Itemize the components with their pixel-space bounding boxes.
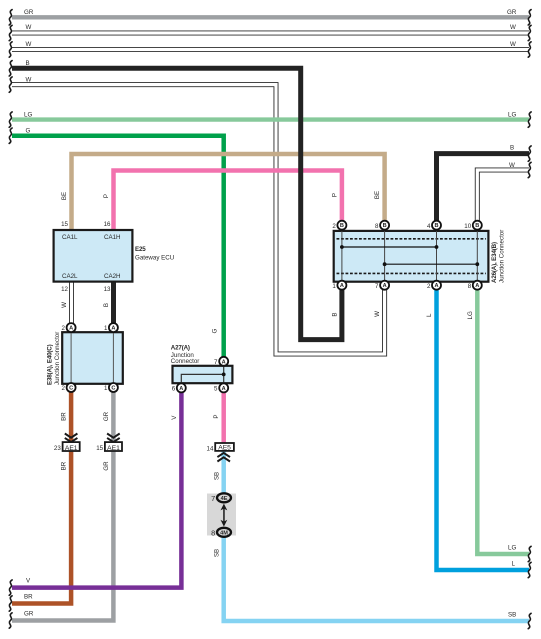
- svg-text:BE: BE: [61, 192, 68, 200]
- pin 1(A): [109, 323, 118, 332]
- pin 7(A): [219, 357, 228, 366]
- pin 8(A): [473, 281, 482, 290]
- squiggle SB right: [528, 613, 531, 628]
- svg-text:B: B: [475, 223, 479, 229]
- svg-text:1: 1: [104, 325, 108, 332]
- svg-text:A: A: [383, 283, 387, 289]
- chevrons below AE5 (pointing up): [217, 453, 230, 462]
- pin 4(B): [432, 221, 441, 230]
- svg-text:GR: GR: [103, 461, 110, 471]
- svg-text:B: B: [434, 223, 438, 229]
- squiggle W right: [528, 162, 531, 177]
- squiggle B left: [9, 61, 12, 76]
- pin 5(A): [219, 383, 228, 392]
- shaded area: [207, 494, 236, 536]
- wire P (pink: gateway pin 16 up, across, down to pin 2B): [114, 171, 342, 230]
- svg-text:CA1H: CA1H: [104, 234, 121, 241]
- svg-text:1: 1: [332, 283, 336, 290]
- op-amp-box ECU E25: [54, 230, 133, 282]
- svg-text:L: L: [512, 561, 516, 568]
- svg-text:AE1: AE1: [107, 445, 120, 452]
- wire W right (to pin 10B, white): [477, 170, 529, 221]
- squiggle GR left bottom: [9, 613, 12, 628]
- svg-text:15: 15: [96, 445, 103, 452]
- svg-text:G: G: [26, 128, 31, 135]
- connector 7 4E: [211, 493, 231, 503]
- label E25 Gateway ECU: [135, 246, 174, 262]
- wire B right (black from right edge to pin 4B): [437, 154, 530, 221]
- svg-text:4M: 4M: [220, 530, 228, 536]
- squiggle W1 left: [9, 25, 12, 40]
- svg-text:SB: SB: [214, 549, 221, 557]
- wire B gateway CA2H to pin 1A of E38 (black): [111, 282, 116, 324]
- connector 14 AE5: [207, 443, 234, 452]
- svg-text:B: B: [103, 303, 110, 307]
- svg-text:CA1L: CA1L: [62, 234, 78, 241]
- svg-text:B: B: [510, 145, 514, 152]
- connector 15 AE1: [96, 442, 122, 452]
- svg-text:W: W: [509, 162, 515, 169]
- svg-text:A26(A), E34(B): A26(A), E34(B): [491, 242, 498, 283]
- svg-text:LG: LG: [508, 111, 516, 118]
- svg-text:CA2L: CA2L: [62, 273, 78, 280]
- svg-text:GR: GR: [24, 9, 34, 16]
- svg-text:8: 8: [211, 529, 215, 538]
- svg-text:2: 2: [427, 283, 431, 290]
- wire GR (top gray bus): [12, 15, 529, 19]
- svg-text:4E: 4E: [221, 496, 228, 502]
- squiggle W2 left: [9, 42, 12, 57]
- svg-text:Junction Connector: Junction Connector: [54, 332, 61, 385]
- pin 2(A): [432, 281, 441, 290]
- chevrons above AE1 right: [107, 434, 120, 443]
- svg-text:A: A: [222, 386, 226, 392]
- internal link pin2B-pin4B: [342, 246, 437, 248]
- svg-text:C: C: [69, 386, 73, 392]
- wire GR2 (gray: E38 pin 1C down, left to edge): [12, 392, 113, 621]
- squiggle W2 right: [528, 42, 531, 57]
- svg-text:SB: SB: [508, 612, 516, 619]
- squiggle LG2 right: [528, 546, 531, 561]
- svg-text:W: W: [26, 41, 32, 48]
- svg-text:2: 2: [332, 223, 336, 230]
- svg-text:BR: BR: [24, 594, 33, 601]
- svg-text:E25: E25: [135, 246, 146, 253]
- svg-text:L: L: [426, 313, 433, 317]
- svg-text:B: B: [26, 60, 30, 67]
- svg-text:12: 12: [61, 286, 68, 293]
- label E38(A), E40(C) Junction Connector (rotated): [47, 332, 62, 385]
- svg-text:A: A: [111, 326, 115, 332]
- pin 1(C): [109, 383, 118, 392]
- pin 1(A): [337, 281, 346, 290]
- svg-text:P: P: [213, 414, 220, 418]
- label A27(A) Junction Connector: [171, 345, 200, 366]
- svg-text:Connector: Connector: [171, 358, 200, 365]
- svg-text:W: W: [26, 24, 32, 31]
- wire G (green, left bus down to A27 pin 7): [12, 136, 224, 358]
- svg-text:10: 10: [464, 223, 471, 230]
- squiggle BR left: [9, 596, 12, 611]
- squiggle W1 right: [528, 25, 531, 40]
- svg-text:16: 16: [104, 221, 111, 228]
- junction connector E38(A)/E40(C) body: [62, 332, 123, 384]
- svg-text:A: A: [179, 386, 183, 392]
- wire P2 (pink: A27 pin 5 down to AE5): [221, 392, 226, 443]
- wire B top (black bus to pin 1A of A26/E34): [12, 68, 342, 339]
- svg-text:2: 2: [62, 385, 66, 392]
- squiggle GR right: [528, 10, 531, 25]
- chevrons above AE1 left: [65, 434, 78, 443]
- svg-text:A: A: [222, 359, 226, 365]
- svg-text:P: P: [331, 193, 338, 197]
- svg-text:BR: BR: [61, 412, 68, 421]
- svg-text:AE1: AE1: [65, 445, 78, 452]
- svg-text:LG: LG: [508, 545, 516, 552]
- wire BR (brown: E38 pin 2C down, left to edge): [12, 392, 71, 604]
- svg-text:15: 15: [61, 221, 68, 228]
- svg-text:E38(A), E40(C): E38(A), E40(C): [47, 344, 54, 385]
- svg-text:A27(A): A27(A): [171, 345, 190, 352]
- svg-text:W: W: [510, 24, 516, 31]
- svg-text:LG: LG: [24, 111, 32, 118]
- svg-text:2: 2: [62, 325, 66, 332]
- pin 10(B): [473, 221, 482, 230]
- svg-text:14: 14: [207, 445, 214, 452]
- wire LG (light green bus): [12, 117, 529, 121]
- wire LG2 (light green: pin 8A down, right to edge): [477, 289, 529, 554]
- pin 8(B): [380, 221, 389, 230]
- squiggle G left: [9, 128, 12, 143]
- svg-text:W: W: [510, 41, 516, 48]
- svg-text:A: A: [340, 283, 344, 289]
- svg-text:W: W: [61, 302, 68, 308]
- svg-text:CA2H: CA2H: [104, 273, 121, 280]
- internal link pin8B-pin10B: [385, 263, 478, 265]
- connector 23 AE1: [54, 442, 80, 452]
- svg-text:5: 5: [214, 386, 218, 393]
- svg-text:G: G: [212, 328, 219, 333]
- squiggle W3 left: [9, 77, 12, 92]
- svg-text:SB: SB: [214, 472, 221, 480]
- svg-text:6: 6: [172, 386, 176, 393]
- svg-text:7: 7: [375, 283, 379, 290]
- svg-text:W: W: [374, 311, 381, 317]
- wire BE (beige: gateway pin 15 up, across, down to pin 8B): [72, 154, 385, 230]
- svg-text:7: 7: [211, 494, 215, 503]
- squiggle LG left: [9, 112, 12, 127]
- wire V (violet: A27 pin 6 down, left to edge, drawn over BR/GR): [12, 392, 181, 587]
- squiggle B right: [528, 146, 531, 161]
- svg-text:13: 13: [104, 286, 111, 293]
- svg-text:A: A: [434, 283, 438, 289]
- squiggle L right: [528, 562, 531, 577]
- pin 6(A): [177, 383, 186, 392]
- connector 8 4M: [211, 528, 231, 538]
- svg-text:AE5: AE5: [218, 445, 231, 452]
- svg-text:Junction Connector: Junction Connector: [499, 230, 506, 283]
- svg-text:GR: GR: [507, 9, 517, 16]
- wire L (blue: pin 2A down, right to edge): [437, 289, 530, 570]
- svg-text:BE: BE: [374, 191, 381, 199]
- svg-text:GR: GR: [103, 411, 110, 421]
- label A26(A), E34(B) Junction Connector (rotated): [491, 230, 506, 283]
- pin 2(C): [67, 383, 76, 392]
- svg-text:4: 4: [427, 223, 431, 230]
- svg-text:C: C: [111, 386, 115, 392]
- pin 2(B): [337, 221, 346, 230]
- svg-text:8: 8: [468, 283, 472, 290]
- wire W1 (top horizontal white): [12, 31, 529, 36]
- squiggle GR left: [9, 10, 12, 25]
- svg-text:B: B: [383, 223, 387, 229]
- wire SB (sky blue: AE5 down through 4E/4M, right to edge): [224, 451, 529, 621]
- svg-text:7: 7: [214, 359, 218, 366]
- double arrow between 4E and 4M: [221, 504, 228, 527]
- svg-text:8: 8: [375, 223, 379, 230]
- junction connector A26(A)/E34(B) body: [334, 231, 489, 282]
- svg-text:23: 23: [54, 445, 61, 452]
- wire W2 (top horizontal white): [12, 47, 529, 52]
- svg-text:Gateway ECU: Gateway ECU: [135, 255, 174, 262]
- svg-text:W: W: [26, 76, 32, 83]
- svg-text:P: P: [103, 194, 110, 198]
- svg-text:GR: GR: [24, 611, 34, 618]
- wire W from gateway CA2L to pin 2A of E38 (white): [69, 282, 74, 324]
- squiggle LG right: [528, 112, 531, 127]
- squiggle V left: [9, 580, 12, 595]
- svg-text:A: A: [69, 326, 73, 332]
- pin 2(A): [67, 323, 76, 332]
- wire W3 (left bus to pin 7A of A26/E34, white outline style): [12, 85, 385, 354]
- svg-text:A: A: [475, 283, 479, 289]
- svg-text:B: B: [340, 223, 344, 229]
- svg-text:1: 1: [104, 385, 108, 392]
- pin 7(A): [380, 281, 389, 290]
- junction connector A27(A) body: [173, 366, 233, 383]
- svg-text:LG: LG: [467, 311, 474, 319]
- svg-text:B: B: [331, 312, 338, 316]
- svg-text:BR: BR: [61, 461, 68, 470]
